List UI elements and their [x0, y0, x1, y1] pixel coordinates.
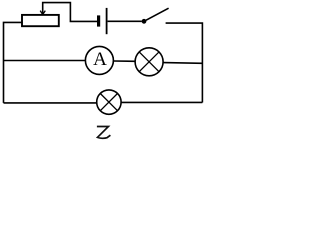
svg-text:A: A: [93, 49, 107, 70]
